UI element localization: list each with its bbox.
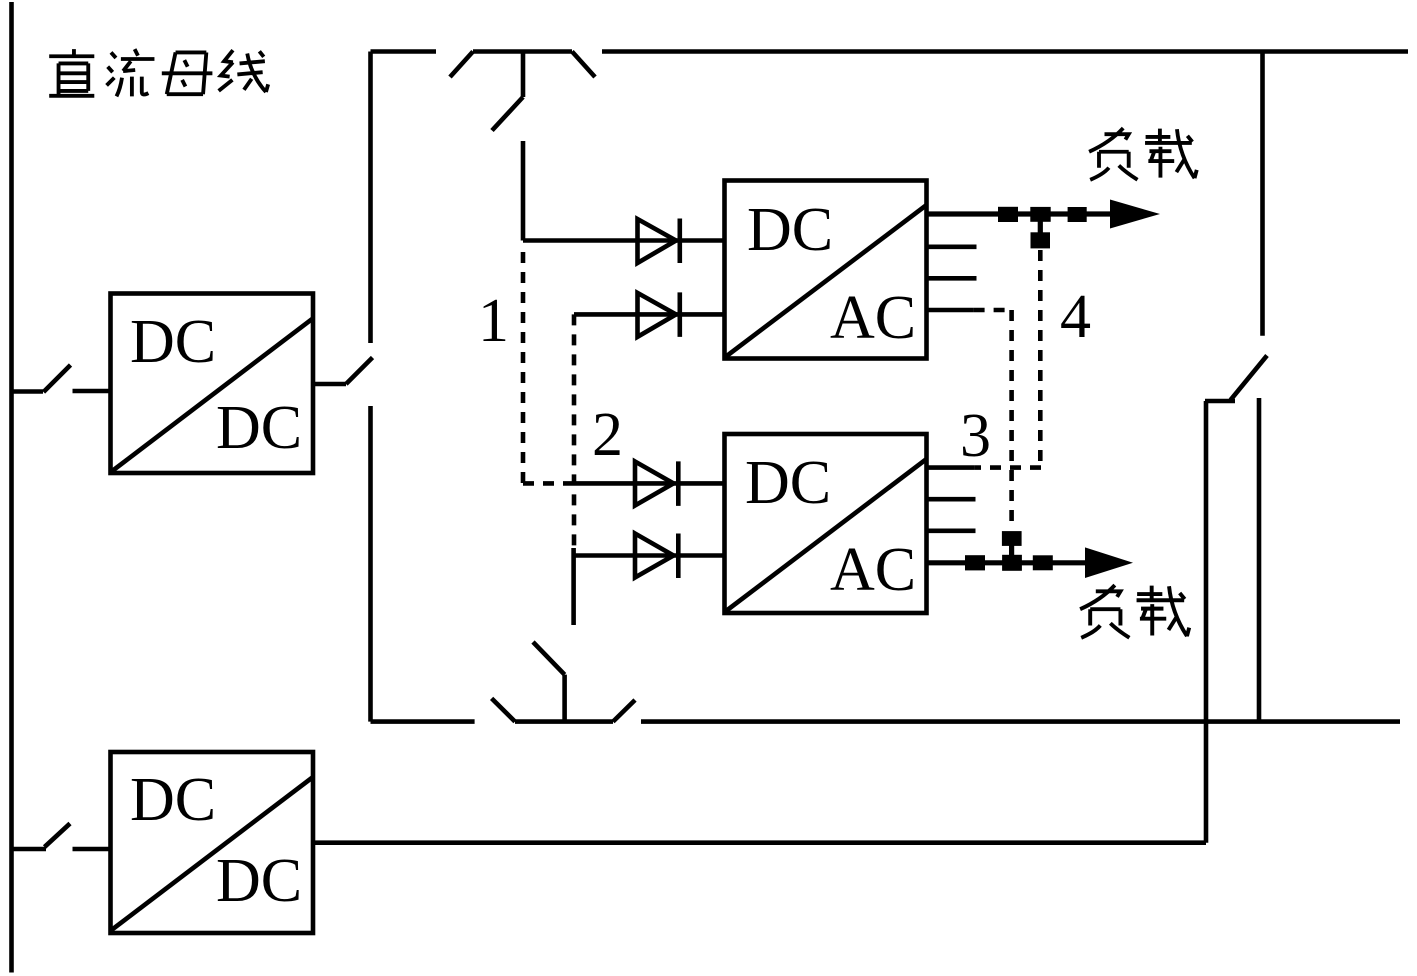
svg-text:DC: DC [747, 196, 833, 264]
svg-text:3: 3 [960, 402, 991, 470]
svg-text:DC: DC [745, 449, 831, 517]
svg-text:DC: DC [216, 847, 302, 915]
svg-text:4: 4 [1060, 283, 1091, 351]
svg-text:DC: DC [130, 766, 216, 834]
svg-text:DC: DC [216, 394, 302, 462]
svg-text:DC: DC [130, 308, 216, 376]
svg-text:1: 1 [478, 287, 509, 355]
svg-text:AC: AC [830, 536, 916, 604]
svg-text:2: 2 [592, 401, 623, 469]
svg-text:AC: AC [830, 284, 916, 352]
